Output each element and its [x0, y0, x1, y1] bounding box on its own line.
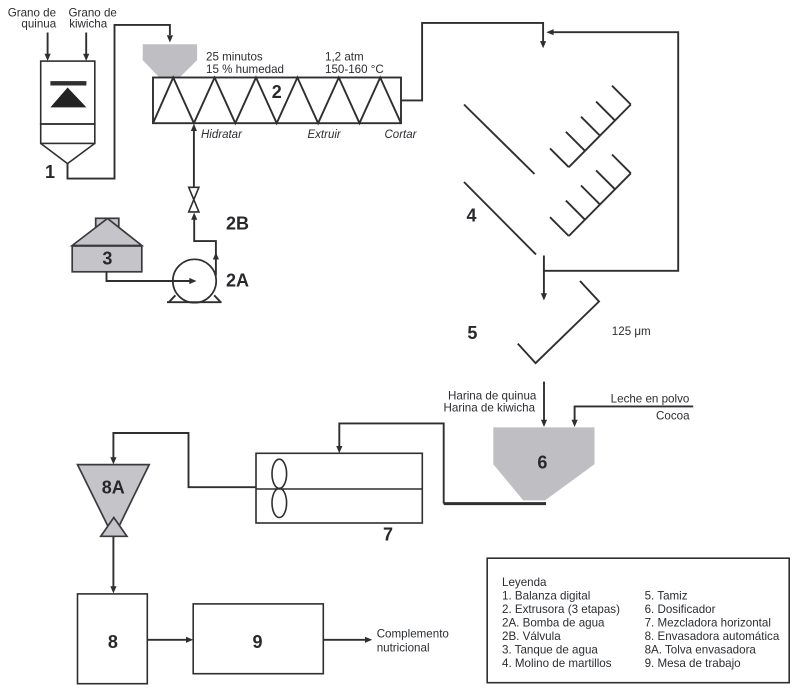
node: mill outlet junction	[543, 256, 545, 272]
molino de martillos 4 : chute line 2	[464, 182, 536, 255]
svg-text:Cortar: Cortar	[385, 129, 418, 141]
svg-text:8. Envasadora automática: 8. Envasadora automática	[645, 630, 780, 643]
svg-text:2B: 2B	[226, 214, 249, 234]
svg-text:4. Molino de martillos: 4. Molino de martillos	[502, 657, 612, 670]
svg-text:2B. Válvula: 2B. Válvula	[502, 630, 561, 643]
svg-text:125 μm: 125 μm	[612, 325, 651, 338]
svg-text:8: 8	[108, 632, 118, 652]
feed label: Grano de kiwicha	[69, 7, 117, 31]
valvula 2B	[189, 187, 199, 212]
wire: tolva to envasadora 8	[110, 537, 116, 594]
svg-text:6. Dosificador: 6. Dosificador	[645, 603, 716, 616]
envasadora automatica 8	[78, 594, 148, 684]
svg-text:25 minutos: 25 minutos	[206, 50, 263, 63]
svg-text:8A. Tolva envasadora: 8A. Tolva envasadora	[645, 644, 757, 657]
wire: quinua feed arrow	[45, 33, 51, 62]
svg-text:Extruir: Extruir	[308, 129, 342, 141]
svg-text:nutricional: nutricional	[377, 642, 430, 655]
bomba de agua 2A	[167, 259, 222, 302]
legend box	[487, 558, 789, 683]
tamiz 5	[518, 281, 599, 363]
svg-text:3. Tanque de agua: 3. Tanque de agua	[502, 644, 598, 657]
svg-text:7: 7	[383, 524, 393, 544]
svg-text:2A: 2A	[226, 271, 249, 291]
product label: Complemento nutricional	[377, 628, 449, 655]
svg-text:1. Balanza digital: 1. Balanza digital	[502, 590, 590, 603]
svg-text:Leyenda: Leyenda	[502, 576, 547, 589]
extruder feed hopper (gray)	[143, 44, 197, 77]
svg-text:3: 3	[102, 249, 112, 269]
wire: mixer output to tolva 8A	[110, 433, 256, 487]
balanza digital 1	[41, 61, 95, 164]
svg-text:15 % humedad: 15 % humedad	[206, 63, 284, 76]
svg-text:7. Mezcladora horizontal: 7. Mezcladora horizontal	[645, 617, 771, 630]
svg-text:9. Mesa de trabajo: 9. Mesa de trabajo	[645, 657, 741, 670]
svg-text:2A. Bomba de agua: 2A. Bomba de agua	[502, 617, 605, 630]
wire: dosificador outlet to mixer	[336, 423, 546, 503]
stream label: Harina de quinua / Harina de kiwicha	[444, 390, 537, 415]
extrusora 2	[153, 78, 401, 124]
svg-text:6: 6	[537, 453, 547, 473]
svg-text:9: 9	[252, 632, 262, 652]
wire: leche en polvo line into dosificador	[572, 406, 694, 427]
value label: 25 minutos / 15 % humedad	[206, 50, 284, 75]
wire: 9 to product	[323, 637, 372, 643]
svg-text:5. Tamiz: 5. Tamiz	[645, 590, 688, 603]
svg-text:Harina de kiwicha: Harina de kiwicha	[444, 402, 536, 415]
svg-text:5: 5	[467, 323, 477, 343]
value label: 1,2 atm / 150-160 C	[325, 50, 384, 75]
svg-text:kiwicha: kiwicha	[69, 18, 108, 31]
wire: 8 to 9	[147, 637, 193, 643]
dosificador 6 (gray hopper)	[493, 427, 594, 500]
wire: kiwicha feed arrow	[83, 33, 89, 62]
wire: recycle line from mill bottom to top	[544, 29, 678, 271]
tolva envasadora 8A	[78, 465, 150, 538]
stream label: Leche en polvo / Cocoa	[611, 393, 690, 423]
wire: water line into extruder (arrow up)	[191, 124, 197, 188]
svg-text:150-160 °C: 150-160 °C	[325, 63, 384, 76]
svg-text:1,2 atm: 1,2 atm	[325, 50, 364, 63]
svg-text:8A: 8A	[102, 478, 125, 498]
svg-text:Leche en polvo: Leche en polvo	[611, 393, 690, 406]
svg-text:2. Extrusora (3 etapas): 2. Extrusora (3 etapas)	[502, 603, 620, 616]
wire: extruder output to mill	[401, 23, 546, 101]
wire: pump to valve	[191, 213, 219, 276]
svg-text:quinua: quinua	[21, 18, 56, 31]
molino de martillos 4 : chute line 1	[464, 105, 535, 175]
wire: tank to pump (arrow to pump center)	[107, 272, 197, 284]
svg-text:4: 4	[466, 206, 476, 226]
svg-text:2: 2	[272, 82, 282, 102]
legend right column	[645, 590, 780, 671]
mesa de trabajo 9	[193, 604, 323, 674]
molino de martillos 4 : upper hammer comb	[550, 86, 631, 168]
legend left column	[502, 590, 620, 671]
feed label: Grano de quinua	[8, 7, 57, 31]
molino de martillos 4 : lower hammer comb	[550, 155, 631, 237]
svg-text:1: 1	[45, 162, 55, 182]
tanque de agua 3	[72, 218, 142, 271]
mezcladora horizontal 7	[256, 453, 422, 523]
svg-text:Hidratar: Hidratar	[201, 129, 243, 141]
wire: mill to sieve (arrow down)	[541, 271, 547, 301]
svg-text:Cocoa: Cocoa	[656, 410, 690, 423]
wire: balanza to extruder hopper	[68, 25, 174, 179]
wire: sieve to dosificador (arrow down)	[541, 382, 547, 427]
svg-text:Complemento: Complemento	[377, 628, 449, 641]
